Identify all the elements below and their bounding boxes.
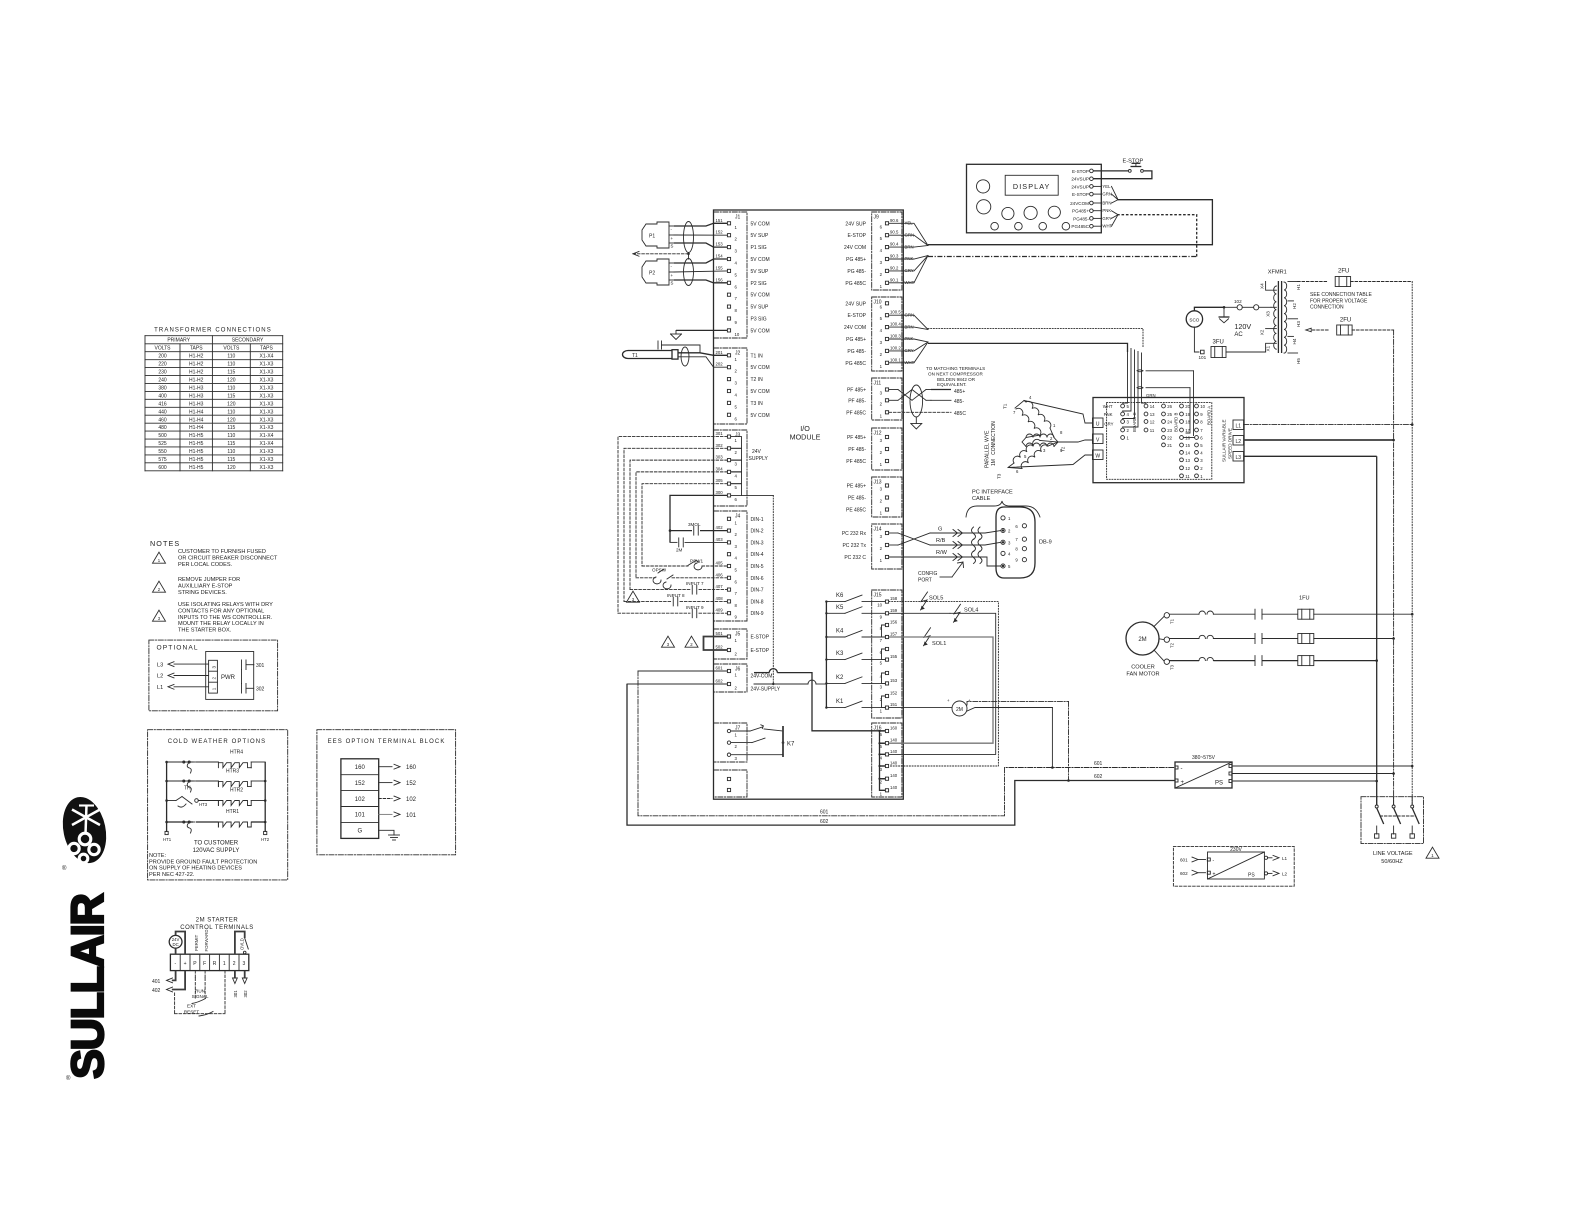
svg-text:5V SUP: 5V SUP (751, 233, 769, 239)
svg-text:H1-H3: H1-H3 (189, 393, 204, 399)
J10 pin 2 wire 100.2 (847, 345, 913, 357)
svg-text:GRY: GRY (1102, 216, 1111, 221)
connector J5 box (714, 629, 748, 659)
line voltage label (1371, 851, 1412, 865)
svg-text:PNK: PNK (1104, 412, 1113, 417)
svg-text:102: 102 (1234, 299, 1242, 304)
J6 pin 1 wire 601 (716, 666, 738, 678)
svg-text:PER NEC 427-22.: PER NEC 427-22. (149, 872, 195, 878)
svg-text:155: 155 (716, 265, 724, 270)
note 3 marker triangle (153, 610, 166, 621)
svg-text:H1-H4: H1-H4 (189, 425, 204, 431)
drive cable bundle wires (1123, 347, 1156, 427)
svg-text:+: + (1181, 780, 1185, 786)
svg-text:2: 2 (211, 677, 216, 680)
svg-text:TO MATCHING TERMINALS: TO MATCHING TERMINALS (926, 366, 985, 371)
svg-text:E-STOP: E-STOP (1072, 169, 1089, 174)
svg-text:GRN: GRN (1102, 192, 1112, 197)
EES wire 160 (379, 764, 417, 771)
svg-text:602: 602 (716, 679, 724, 684)
wire 485+ out (931, 389, 965, 395)
svg-text:X1-X3: X1-X3 (260, 393, 274, 399)
svg-text:10: 10 (735, 332, 740, 337)
svg-text:PF 485+: PF 485+ (847, 435, 866, 441)
svg-text:101: 101 (1199, 355, 1207, 360)
ext reset dashed contact (175, 971, 225, 1016)
right heater bus wire (264, 762, 266, 832)
E-STOP jumper (704, 637, 728, 651)
J10 pin 4 wire 100.4 (844, 322, 914, 334)
svg-text:26: 26 (1167, 404, 1172, 409)
svg-text:X1-X3: X1-X3 (260, 370, 274, 376)
svg-text:202: 202 (716, 362, 724, 367)
svg-text:154: 154 (716, 254, 724, 259)
wire break chevrons (953, 530, 963, 561)
starter aux contact wire 301 (233, 971, 239, 998)
svg-text:PG 485C: PG 485C (845, 281, 866, 287)
svg-text:SUPPLY: SUPPLY (749, 456, 769, 462)
svg-text:401: 401 (152, 979, 161, 985)
starter aux contact wire 302 (242, 971, 248, 998)
tap X1 (1266, 343, 1277, 352)
svg-text:X1-X4: X1-X4 (260, 354, 274, 360)
relay contact K1 (825, 699, 885, 709)
J4 pin 2 wire 402 (716, 525, 764, 537)
J2 pin 6 (727, 413, 769, 422)
svg-text:FAN MOTOR: FAN MOTOR (1126, 672, 1159, 678)
svg-text:303: 303 (716, 455, 724, 460)
svg-text:S: S (671, 281, 674, 286)
svg-text:1M CONNECTION: 1M CONNECTION (991, 421, 997, 466)
svg-text:5V COM: 5V COM (751, 293, 770, 299)
svg-text:STRING DEVICES.: STRING DEVICES. (178, 590, 227, 596)
svg-text:J13: J13 (874, 480, 882, 486)
svg-text:DB-9: DB-9 (1039, 540, 1052, 546)
230V PS output L2 (1264, 871, 1287, 877)
svg-text:DIN-9: DIN-9 (751, 611, 764, 617)
svg-text:DC: DC (172, 942, 178, 947)
svg-text:DIN-1: DIN-1 (751, 517, 764, 523)
svg-text:SOL4: SOL4 (964, 608, 978, 614)
svg-text:MOUNT THE RELAY LOCALLY IN: MOUNT THE RELAY LOCALLY IN (178, 621, 264, 627)
svg-text:K4: K4 (836, 629, 844, 635)
cable shield P1 (684, 222, 694, 253)
emergency stop pushbutton E-STOP (1093, 159, 1152, 179)
shield drain arrow (633, 251, 690, 259)
J16 pin 4 wire 140 (880, 749, 898, 761)
note 1 text (178, 549, 278, 568)
display terminals (1070, 169, 1093, 229)
svg-text:14: 14 (1185, 450, 1190, 455)
svg-text:T2: T2 (1170, 642, 1175, 648)
connector J12 box (872, 428, 902, 470)
terminal L1 input wire (157, 684, 209, 691)
PWR relay output contact 302 (242, 684, 265, 694)
overload contact OVLD (235, 932, 248, 955)
J9 pin 1 wire 90.1 (845, 277, 914, 289)
svg-text:100.3: 100.3 (890, 334, 901, 339)
svg-text:24V COM: 24V COM (844, 245, 866, 251)
svg-text:90.5: 90.5 (890, 230, 899, 235)
config port label (918, 562, 964, 584)
wire 401 to starter minus (152, 971, 176, 985)
svg-text:L2: L2 (1236, 439, 1242, 445)
J4 pin 9 wire 409 (716, 608, 764, 620)
J4 pin 8 wire 408 (716, 596, 764, 608)
drive terminal U (1093, 418, 1104, 428)
svg-text:H5: H5 (1296, 358, 1301, 364)
J13 pin 1 (846, 508, 889, 516)
svg-text:24VSUP: 24VSUP (1071, 184, 1089, 189)
svg-text:90.3: 90.3 (890, 254, 899, 259)
relay contact K4 (825, 629, 885, 639)
tap X2 (1260, 329, 1277, 336)
I/O module body (714, 210, 904, 799)
J4 pin 4 (727, 552, 763, 561)
connector J15 box (872, 590, 902, 718)
230V PS output L1 (1264, 855, 1287, 861)
J10 pin 6 (845, 301, 888, 309)
J15 pin 8 wire 156 (880, 620, 898, 632)
wire 102 to X3 tap (1224, 299, 1271, 310)
svg-text:H1-H5: H1-H5 (189, 449, 204, 455)
fuse 3FU (1194, 327, 1265, 360)
svg-text:TRANSFORMER CONNECTIONS: TRANSFORMER CONNECTIONS (154, 328, 272, 334)
svg-text:PORT: PORT (918, 578, 932, 584)
drive cable run lower (928, 343, 1128, 352)
svg-text:110: 110 (227, 386, 235, 392)
J3 pin 6 wire 300 (716, 490, 738, 502)
J15 pin 6 (880, 647, 889, 655)
svg-text:WHT: WHT (1103, 404, 1113, 409)
svg-text:5V COM: 5V COM (751, 365, 770, 371)
svg-text:PRIMARY: PRIMARY (167, 338, 190, 344)
svg-text:5V SUP: 5V SUP (751, 269, 769, 275)
svg-text:SEE CONNECTION TABLE: SEE CONNECTION TABLE (1310, 292, 1372, 298)
svg-text:FOR PROPER VOLTAGE: FOR PROPER VOLTAGE (1310, 298, 1368, 304)
motor lead T1 (1003, 401, 1093, 424)
svg-text:120: 120 (227, 417, 236, 423)
svg-text:X1-X3: X1-X3 (260, 449, 274, 455)
svg-text:XFMR1: XFMR1 (1268, 270, 1287, 276)
svg-text:PG 485C: PG 485C (845, 361, 866, 367)
bus line phase B (1393, 330, 1395, 805)
svg-text:PG485-: PG485- (1073, 216, 1089, 221)
connector J14 box (872, 524, 902, 569)
svg-text:115: 115 (227, 370, 235, 376)
svg-text:PE 485-: PE 485- (848, 496, 866, 502)
svg-text:13: 13 (1185, 458, 1190, 463)
J9 pin 6 wire 90.6 (845, 218, 913, 230)
svg-text:PG 485-: PG 485- (847, 269, 866, 275)
svg-text:SECONDARY: SECONDARY (232, 338, 264, 344)
svg-text:115: 115 (227, 393, 235, 399)
svg-text:230V: 230V (1230, 847, 1242, 853)
RS-232 crossover wires (889, 533, 930, 545)
svg-text:L1: L1 (157, 685, 163, 691)
svg-text:ON SUPPLY OF HEATING DEVICES: ON SUPPLY OF HEATING DEVICES (149, 866, 242, 872)
J15 pin 3 wire 153 (880, 678, 898, 690)
svg-text:24VCOM: 24VCOM (1070, 201, 1089, 206)
svg-text:5V COM: 5V COM (751, 413, 770, 419)
svg-text:X1-X3: X1-X3 (260, 465, 274, 471)
svg-text:10: 10 (877, 603, 882, 608)
svg-text:PER LOCAL CODES.: PER LOCAL CODES. (178, 562, 233, 568)
svg-text:BRN: BRN (1102, 200, 1111, 205)
svg-text:601: 601 (716, 666, 724, 671)
terminal L3 input wire (157, 662, 209, 669)
svg-text:13: 13 (1150, 412, 1155, 417)
svg-text:L3: L3 (157, 662, 163, 668)
svg-text:DIN-2: DIN-2 (751, 529, 764, 535)
notes heading (150, 539, 180, 548)
J1 pin 9 (727, 317, 766, 326)
PWR contact common link wire (241, 670, 243, 684)
Sullair logo wordmark (62, 894, 113, 1082)
J15 pin 7 wire 157 (880, 632, 898, 644)
svg-text:K3: K3 (836, 651, 844, 657)
svg-text:11: 11 (1185, 474, 1190, 479)
svg-text:+: + (184, 961, 187, 967)
svg-text:2FU: 2FU (1338, 269, 1349, 275)
J6 signal labels (751, 674, 781, 693)
svg-text:302: 302 (716, 443, 724, 448)
svg-text:PF 485C: PF 485C (846, 410, 866, 416)
EES wire 102 (379, 796, 417, 803)
svg-text:BOARD A: BOARD A (1207, 406, 1212, 425)
svg-text:601: 601 (1094, 761, 1103, 767)
svg-text:3: 3 (243, 961, 246, 967)
svg-text:PF 485C: PF 485C (846, 459, 866, 465)
svg-text:416: 416 (158, 401, 167, 407)
svg-text:230: 230 (158, 370, 167, 376)
svg-text:EQUIVALENT.: EQUIVALENT. (937, 382, 967, 387)
svg-text:12: 12 (1150, 420, 1155, 425)
J11 pin 2 (848, 398, 888, 406)
contact 3MOL (670, 522, 727, 535)
svg-text:152: 152 (716, 230, 724, 235)
svg-text:575: 575 (158, 457, 167, 463)
fuse label 1FU (1299, 596, 1310, 602)
contact INPUT 9 (618, 605, 727, 618)
svg-text:14: 14 (1150, 404, 1155, 409)
svg-text:REMOVE JUMPER FOR: REMOVE JUMPER FOR (178, 577, 240, 583)
motor lead T2 (1058, 440, 1093, 452)
J14 pin 2 (842, 543, 888, 551)
svg-text:L1: L1 (1282, 856, 1288, 861)
svg-text:SIGNAL: SIGNAL (192, 994, 209, 999)
svg-text:L2: L2 (1282, 872, 1288, 877)
svg-text:P2 SIG: P2 SIG (751, 281, 767, 287)
svg-text:PG 485-: PG 485- (847, 349, 866, 355)
svg-text:OR CIRCUIT BREAKER DISCONNECT: OR CIRCUIT BREAKER DISCONNECT (178, 555, 278, 561)
svg-text:L2: L2 (157, 674, 163, 680)
display buttons and LEDs (977, 180, 1070, 230)
J16 pin 2 wire 140 (880, 773, 898, 785)
connector J9 box (872, 212, 902, 290)
svg-text:T3 IN: T3 IN (751, 401, 764, 407)
svg-text:INPUT 9: INPUT 9 (686, 605, 704, 610)
svg-text:5V COM: 5V COM (751, 221, 770, 227)
svg-text:25: 25 (1167, 412, 1172, 417)
note 1 triangle at line voltage (1426, 847, 1439, 858)
svg-text:HT2: HT2 (261, 837, 270, 842)
connector J16 box (872, 723, 902, 797)
svg-text:DIN-3: DIN-3 (751, 540, 764, 546)
svg-text:H1: H1 (1296, 284, 1301, 290)
J4 pin 6 wire 406 (716, 572, 764, 584)
svg-text:HTR3: HTR3 (226, 769, 239, 775)
connector J2 box (714, 348, 748, 424)
svg-text:CABLE: CABLE (972, 496, 991, 502)
svg-text:151: 151 (716, 218, 724, 223)
J3 pin 1 wire 301 (716, 431, 738, 443)
J3 pin 4 wire 304 (716, 466, 738, 478)
svg-text:L3: L3 (1236, 455, 1242, 461)
wire 402 to starter plus (152, 971, 185, 994)
svg-text:153: 153 (716, 242, 724, 247)
J5 pin 2 wire 502 (716, 645, 770, 657)
drive terminal L3 (1233, 452, 1244, 462)
svg-text:120: 120 (227, 378, 236, 384)
J15 pin 9 wire 159 (880, 608, 898, 620)
motor label (985, 421, 998, 468)
svg-text:525: 525 (158, 441, 167, 447)
tap H2 (1288, 301, 1297, 309)
svg-text:TH: TH (184, 786, 191, 792)
230V PS input 602 (1180, 870, 1216, 877)
svg-text:X4: X4 (1260, 283, 1265, 289)
pressure transducer P2 (642, 259, 674, 286)
J15 pin 5 wire 155 (880, 654, 898, 666)
svg-text:CONTACTS FOR ANY OPTIONAL: CONTACTS FOR ANY OPTIONAL (178, 608, 264, 614)
drive terminal L2 (1233, 436, 1244, 446)
svg-text:L1: L1 (1236, 423, 1242, 429)
svg-text:-: - (1181, 766, 1183, 772)
svg-text:H4: H4 (1292, 338, 1297, 344)
24V common wire to J16 (754, 669, 885, 731)
J1 pin 4 wire 154 (716, 254, 770, 266)
svg-text:J2: J2 (735, 351, 741, 357)
svg-text:140: 140 (890, 749, 898, 754)
tap X4 (1260, 282, 1277, 291)
motor lead T3 (997, 455, 1093, 479)
svg-text:PG 485+: PG 485+ (846, 257, 866, 263)
svg-text:11: 11 (1150, 428, 1155, 433)
connector J11 box (872, 378, 902, 420)
svg-text:VOLTS: VOLTS (154, 346, 171, 352)
connector DB-9 (996, 507, 1052, 578)
svg-text:VOLTS: VOLTS (223, 346, 240, 352)
svg-text:140: 140 (890, 785, 898, 790)
svg-text:90.2: 90.2 (890, 265, 899, 270)
tap H3 (1288, 319, 1301, 327)
Sullair logo emblem (57, 793, 112, 872)
svg-text:W: W (1095, 453, 1100, 459)
svg-text:2M: 2M (956, 707, 963, 713)
fuse 2FU lower with tap arrow (1306, 318, 1394, 336)
svg-text:5V SUP: 5V SUP (751, 305, 769, 311)
J16 pin 6 wire 160 (880, 726, 898, 738)
svg-text:152: 152 (890, 691, 898, 696)
J3 pin 5 wire 305 (716, 478, 738, 490)
svg-text:485+: 485+ (954, 389, 965, 395)
J4 pin 5 wire 405 (716, 561, 764, 573)
drive board B pins (1162, 404, 1179, 448)
svg-text:100.4: 100.4 (890, 322, 901, 327)
J3 pin 2 wire 302 (716, 443, 738, 455)
pressure switch OPSW (636, 568, 727, 589)
svg-text:500: 500 (158, 433, 167, 439)
svg-text:K7: K7 (787, 742, 795, 748)
svg-text:COOLER: COOLER (1131, 665, 1155, 671)
svg-text:406: 406 (716, 572, 724, 577)
svg-text:BOARD B: BOARD B (1174, 413, 1179, 432)
svg-text:120: 120 (227, 465, 236, 471)
svg-text:X1: X1 (1266, 345, 1271, 351)
svg-text:24V SUP: 24V SUP (845, 301, 866, 307)
svg-text:302: 302 (256, 687, 265, 693)
J1 pin 8 (727, 305, 769, 314)
svg-text:H1-H4: H1-H4 (189, 409, 204, 415)
svg-text:SULLAIR VARIABLE: SULLAIR VARIABLE (1222, 419, 1227, 462)
solenoid SOL5 and wire loop (889, 592, 998, 766)
svg-text:G: G (357, 829, 362, 835)
svg-text:R/B: R/B (936, 538, 946, 544)
svg-text:SCO: SCO (1189, 317, 1199, 322)
svg-text:5V COM: 5V COM (751, 389, 770, 395)
svg-text:TAPS: TAPS (190, 346, 203, 352)
J9 pin 2 wire 90.2 (847, 265, 913, 277)
svg-text:460: 460 (158, 417, 167, 423)
svg-text:PE 485C: PE 485C (846, 508, 866, 514)
svg-text:GRY: GRY (1104, 422, 1113, 427)
svg-text:PS: PS (1215, 781, 1223, 787)
svg-text:PG485+: PG485+ (1072, 209, 1089, 214)
connector J7 box (714, 723, 748, 762)
J12 pin 1 (846, 459, 888, 467)
svg-text:300: 300 (716, 490, 724, 495)
RS-485 network note text (926, 366, 985, 387)
drive terminal L1 (1233, 420, 1244, 430)
svg-text:SOL5: SOL5 (929, 596, 943, 602)
J10 drive cable wires (889, 315, 928, 363)
230V power supply option box (1173, 846, 1294, 886)
contact INPUT 8 (624, 593, 727, 606)
wire 485C out (889, 411, 966, 417)
svg-text:H1-H2: H1-H2 (189, 354, 204, 360)
svg-text:SULLAIR: SULLAIR (62, 894, 113, 1079)
svg-text:YEL: YEL (1102, 184, 1111, 189)
svg-text:PG 485+: PG 485+ (846, 337, 866, 343)
svg-text:50/60HZ: 50/60HZ (1381, 859, 1403, 865)
svg-text:440: 440 (158, 409, 167, 415)
wire 601 24V common run (638, 671, 1175, 816)
svg-text:110: 110 (227, 409, 235, 415)
display cable color wires (1093, 184, 1118, 229)
cable shield T1 (681, 347, 689, 366)
svg-text:110: 110 (227, 449, 235, 455)
svg-text:485-: 485- (954, 399, 964, 405)
svg-text:120V: 120V (1234, 322, 1251, 331)
J5 pin 1 wire 501 (716, 631, 770, 643)
svg-text:J15: J15 (874, 593, 882, 599)
temperature probe T1 (623, 350, 679, 359)
svg-text:X1-X3: X1-X3 (260, 386, 274, 392)
display cable run upper (928, 200, 1212, 245)
J1 pin 10 (727, 328, 769, 337)
ground at 120V line (1219, 307, 1230, 323)
